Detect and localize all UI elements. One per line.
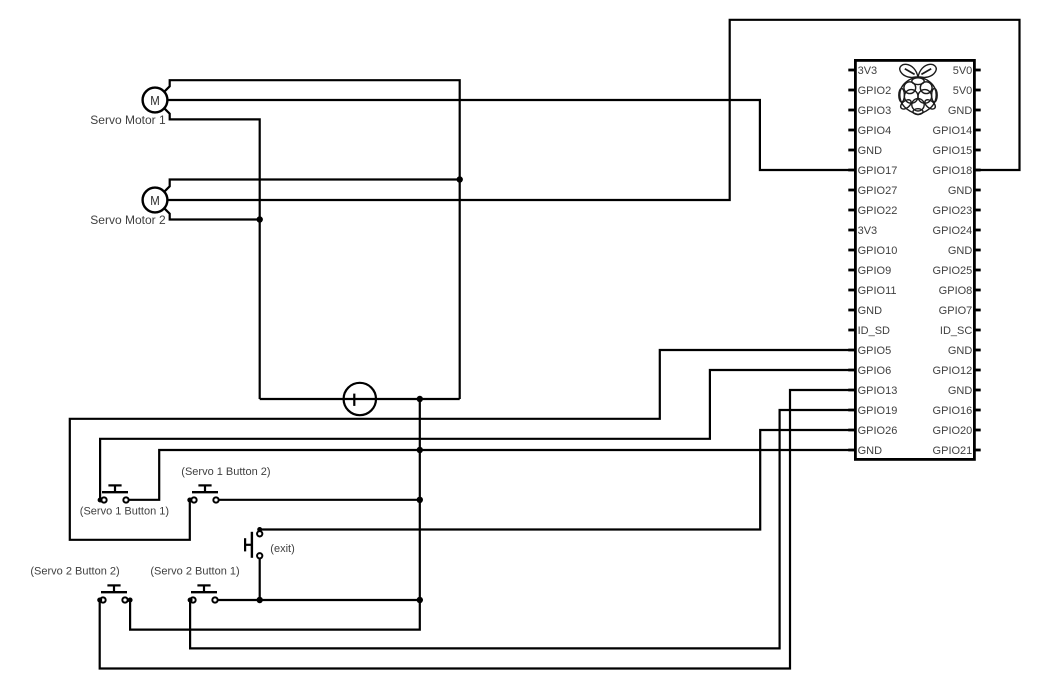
svg-text:M: M [150,193,160,208]
svg-text:3V3: 3V3 [858,65,878,77]
svg-text:3V3: 3V3 [858,225,878,237]
svg-text:GND: GND [948,345,973,357]
svg-text:GPIO14: GPIO14 [933,125,973,137]
svg-text:GPIO19: GPIO19 [858,405,898,417]
svg-text:(Servo 1 Button 2): (Servo 1 Button 2) [181,466,270,478]
svg-text:ID_SC: ID_SC [940,325,972,337]
svg-text:GPIO9: GPIO9 [858,265,892,277]
svg-text:GPIO27: GPIO27 [858,185,898,197]
svg-text:GPIO21: GPIO21 [933,445,973,457]
svg-text:GPIO17: GPIO17 [858,165,898,177]
svg-text:GND: GND [948,245,973,257]
svg-text:GPIO10: GPIO10 [858,245,898,257]
svg-text:GPIO26: GPIO26 [858,425,898,437]
svg-text:GPIO25: GPIO25 [933,265,973,277]
svg-text:M: M [150,93,160,108]
svg-text:GPIO22: GPIO22 [858,205,898,217]
svg-text:GPIO16: GPIO16 [933,405,973,417]
svg-text:(exit): (exit) [270,543,294,555]
svg-text:ID_SD: ID_SD [858,325,890,337]
svg-text:GND: GND [858,145,883,157]
svg-text:GPIO2: GPIO2 [858,85,892,97]
svg-text:GPIO12: GPIO12 [933,365,973,377]
svg-text:Servo Motor 1: Servo Motor 1 [90,113,166,127]
svg-text:GND: GND [858,305,883,317]
svg-text:GPIO24: GPIO24 [933,225,973,237]
svg-text:(Servo 1 Button 1): (Servo 1 Button 1) [80,505,169,517]
svg-text:GPIO6: GPIO6 [858,365,892,377]
svg-text:5V0: 5V0 [953,65,973,77]
svg-text:GPIO3: GPIO3 [858,105,892,117]
svg-text:GPIO13: GPIO13 [858,385,898,397]
svg-text:GPIO15: GPIO15 [933,145,973,157]
svg-text:GND: GND [948,105,973,117]
svg-text:GND: GND [948,185,973,197]
svg-text:5V0: 5V0 [953,85,973,97]
svg-text:GPIO5: GPIO5 [858,345,892,357]
svg-text:GND: GND [858,445,883,457]
svg-text:(Servo 2 Button 2): (Servo 2 Button 2) [30,566,119,578]
svg-text:GPIO18: GPIO18 [933,165,973,177]
svg-text:GPIO4: GPIO4 [858,125,892,137]
svg-text:Servo Motor 2: Servo Motor 2 [90,213,166,227]
svg-text:GPIO8: GPIO8 [939,285,973,297]
svg-text:(Servo 2 Button 1): (Servo 2 Button 1) [150,566,239,578]
svg-text:GPIO7: GPIO7 [939,305,973,317]
svg-text:GPIO11: GPIO11 [858,285,897,297]
svg-text:GPIO20: GPIO20 [933,425,973,437]
svg-text:GPIO23: GPIO23 [933,205,973,217]
svg-text:GND: GND [948,385,973,397]
